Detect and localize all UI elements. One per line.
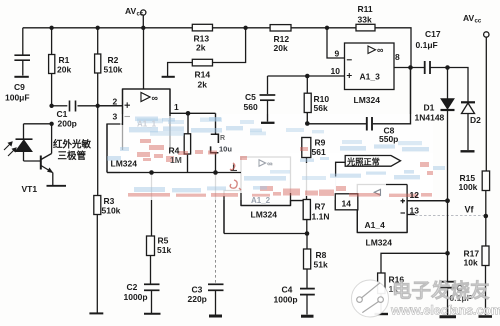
svg-text:R2: R2 [108,55,119,65]
op-amp A1_3 plus minus [347,60,352,78]
wire C8 line [307,68,410,124]
wire pin8 output [394,67,425,69]
capacitor C2 [144,284,161,314]
node Vf [484,214,489,219]
AVcc left terminal [141,10,146,28]
watermark logo circle bottom right [352,280,389,317]
capacitor C1 [52,101,123,112]
svg-text:1000p: 1000p [124,292,148,302]
svg-text:560: 560 [244,102,258,112]
watermark delta marks [230,163,241,190]
svg-text:LM324: LM324 [354,95,381,105]
node pin9 [325,26,329,30]
svg-text:R9: R9 [315,138,326,148]
resistor R7 [303,200,310,234]
node R7-R8 [305,231,310,236]
wire pin10 line [268,76,345,94]
watermark red fragments [128,139,433,197]
svg-text:9: 9 [335,49,340,59]
svg-text:C2: C2 [127,282,138,292]
svg-text:200p: 200p [58,119,77,129]
svg-text:14: 14 [342,199,352,209]
capacitor C5 ground redraw [261,114,275,123]
diode D1 [441,68,455,201]
svg-text:1.1N: 1.1N [312,212,330,222]
svg-text:A1_3: A1_3 [360,72,381,82]
svg-text:2: 2 [113,97,118,107]
svg-text:A1_4: A1_4 [365,220,386,230]
svg-text:R7: R7 [315,202,326,212]
svg-text:C1: C1 [57,109,68,119]
watermark blue fragments [107,117,445,193]
wire pin12 [407,200,447,202]
svg-text:1: 1 [174,102,179,112]
op-amp U1 A1_3 [345,43,395,90]
resistor R16 [375,253,448,314]
svg-text:光照正常: 光照正常 [346,156,380,166]
svg-text:∞: ∞ [267,159,272,168]
svg-text:2k: 2k [196,43,206,53]
node bus-AVcc [141,26,145,30]
wire feedback redraw [107,124,241,175]
svg-text:R1: R1 [59,55,70,65]
callout redraw [336,156,401,177]
label box pin14 [335,194,358,210]
wire C8 redraw [305,70,411,131]
svg-text:D2: D2 [470,115,481,125]
svg-text:Vf: Vf [465,205,475,215]
wire R3 drop [97,106,99,196]
svg-text:33k: 33k [358,15,372,25]
svg-text:电子发烧友: 电子发烧友 [392,279,490,302]
resistor R11 [356,24,375,31]
svg-text:R14: R14 [195,70,211,80]
resistor R10 [304,76,311,124]
svg-text:1M: 1M [170,155,182,165]
wire pin5 branch [224,191,241,234]
svg-text:VT1: VT1 [22,184,38,194]
svg-text:C9: C9 [14,82,25,92]
capacitor C9 [14,28,30,77]
svg-text:510k: 510k [102,206,121,216]
svg-text:100μF: 100μF [5,93,30,103]
svg-text:R3: R3 [104,196,115,206]
watermark blue streaks extra [137,118,422,181]
svg-text:LM324: LM324 [251,210,278,220]
svg-text:550p: 550p [379,134,398,144]
node C17-D1 [445,65,450,70]
svg-text:56k: 56k [314,103,328,113]
capacitor C10 redraw [211,134,219,172]
ink tick fragment [231,165,238,171]
photodiode of VT1 [16,139,41,161]
capacitor C4 [300,289,315,317]
resistor R7 redraw [291,200,311,220]
resistor R5 [147,173,155,284]
wire pin12 redraw [407,198,450,203]
capacitor C17 [425,61,448,74]
op-amp U1 plus minus [125,102,131,116]
node R2-C1-pin2 [96,104,100,108]
resistor R9 [302,138,311,200]
wire stage1 output [170,113,216,134]
svg-text:20k: 20k [274,43,288,53]
op-amp A1 dark redraw [123,89,171,125]
svg-text:D1: D1 [424,103,435,113]
label box pin14 redraw [335,194,358,210]
node fb-R5 [149,170,154,175]
resistor R2 [95,28,101,106]
svg-text:C3: C3 [192,285,203,295]
wire pin5 leg redraw [223,196,225,234]
node R13-R14 [243,26,247,30]
resistor R17 [479,246,493,317]
wire R7 bottom [224,233,307,235]
svg-text:R8: R8 [316,250,327,260]
svg-text:R: R [220,135,225,142]
svg-text:LM324: LM324 [366,238,393,248]
resistor R12 [270,25,291,31]
svg-text:3: 3 [113,112,118,122]
node R1-C1 [49,104,53,108]
capacitor C7 [440,282,457,317]
svg-text:C4: C4 [282,285,293,295]
op-amp A1_4 triangle fragment [374,190,380,196]
capacitor C3 [208,173,224,317]
svg-text:10k: 10k [464,258,478,268]
svg-text:cc: cc [475,19,482,25]
wire feedback line [107,172,241,174]
node VT1 collector [49,122,53,126]
op-amp U1 A1_2 [241,157,291,206]
node pin12-D1 [445,198,450,203]
op-amp U1 A1_4 [357,185,407,233]
op-amp A1_2 triangle fragment [259,159,272,168]
svg-text:20k: 20k [57,65,71,75]
svg-text:R5: R5 [158,236,169,246]
svg-text:红外光敏: 红外光敏 [53,139,92,151]
resistor R14 [162,28,246,77]
resistor R4 [184,113,190,172]
svg-text:A1_1: A1_1 [137,120,157,129]
node R16 tap [445,251,450,256]
resistor R8 [304,234,311,289]
wire A1_2 output [291,200,307,202]
resistor R4 redraw [184,113,190,172]
svg-text:R11: R11 [358,4,373,14]
svg-text:R4: R4 [169,146,180,156]
capacitor C8 [367,117,372,131]
op-amp A1_2 lower edges redraw [241,193,291,206]
wire pin9 branch [327,28,345,58]
svg-text:AV: AV [463,13,475,23]
watermark center wash [100,114,433,200]
svg-text:10: 10 [331,66,341,76]
wire D2 top [448,68,469,102]
wire callout to pin14 [335,176,337,194]
wire pin13 [407,215,485,216]
transistor VT1 [41,124,66,186]
resistor R13 [192,24,212,31]
AVcc right terminal [484,32,489,171]
wire photodiode branch [24,124,52,139]
node pin10-R10 [305,74,310,79]
svg-text:LM324: LM324 [111,159,138,169]
svg-text:100k: 100k [459,182,478,192]
node fb-C3 [213,170,218,175]
capacitor C10 10u [211,134,219,172]
svg-text:cc: cc [137,12,144,18]
op-amp U1 A1 [98,28,170,173]
svg-text:51k: 51k [157,245,171,255]
capacitor C5 [260,95,276,123]
resistor R15 [482,171,489,246]
svg-text:AV: AV [125,6,137,16]
node R10-R9 [305,121,310,126]
resistor R9 redraw [302,138,311,201]
svg-text:0.1μF: 0.1μF [416,40,438,50]
light arrows [4,142,16,156]
resistor R3 [89,196,103,314]
wire stage1 out redraw [170,111,216,134]
svg-text:C17: C17 [425,29,441,39]
op-amp A1_4 plus minus [401,199,406,213]
wire D1 bottom column [447,201,449,281]
svg-text:510k: 510k [104,65,123,75]
node bus-R1 [49,26,53,30]
resistor R1 [49,28,55,106]
svg-text:A1_2: A1_2 [251,196,271,205]
diode D2 [461,102,476,151]
svg-text:1000p: 1000p [274,295,298,305]
svg-text:220p: 220p [188,294,207,304]
callout box light normal [336,156,401,177]
svg-text:C5: C5 [245,92,256,102]
wire top bus [23,28,411,68]
svg-text:12: 12 [410,190,420,200]
svg-text:∞: ∞ [377,45,384,55]
svg-text:∞: ∞ [152,93,159,103]
svg-text:8: 8 [395,52,400,62]
svg-text:2k: 2k [198,80,208,90]
svg-text:三极管: 三极管 [58,150,87,162]
node pin8-R11 [408,65,413,70]
op-amp A1_4 dark edges redraw [357,185,407,233]
svg-text:51k: 51k [314,260,328,270]
node bus-R2 [96,26,100,30]
svg-text:13: 13 [410,206,420,216]
svg-text:www.elecfans.com: www.elecfans.com [390,303,500,318]
node stage1 out [186,111,191,116]
svg-text:1N4148: 1N4148 [415,113,445,123]
svg-text:10u: 10u [219,145,232,154]
svg-text:561: 561 [312,147,326,157]
